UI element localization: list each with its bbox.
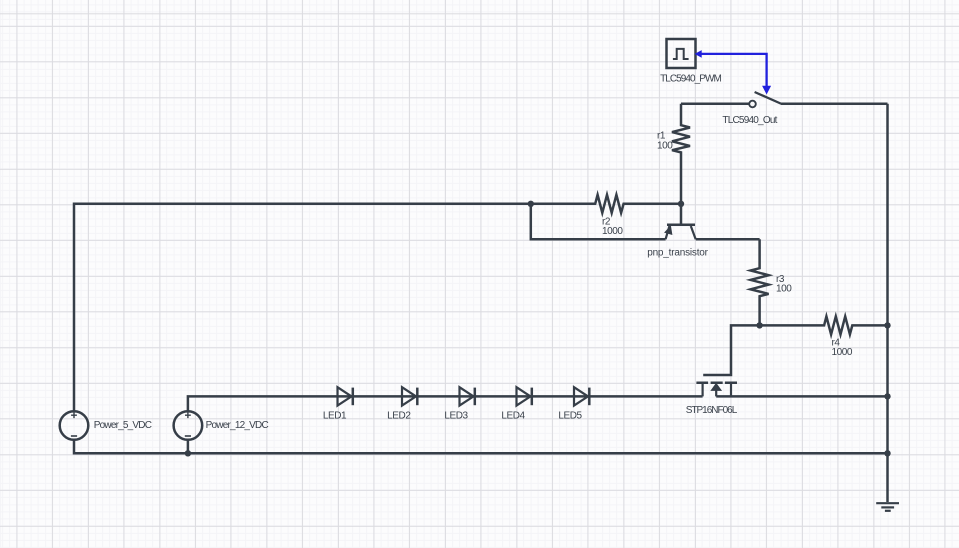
resistor r4 [760,316,888,334]
svg-text:Power_5_VDC: Power_5_VDC [94,420,152,431]
resistor r3 [751,239,769,325]
svg-text:LED1: LED1 [323,411,347,422]
pwm source U1 TLC5940_PWM [667,39,696,68]
voltage source V1 Power_5_VDC [60,411,89,440]
node junction r2-left [528,201,534,207]
resistor r1 [672,104,690,204]
diode LED2 [402,387,417,405]
svg-text:STP16NF06L: STP16NF06L [686,405,738,416]
wire mosfet drain to right bus [716,395,887,398]
svg-text:1000: 1000 [832,347,853,358]
svg-text:LED4: LED4 [501,411,525,422]
diode LED5 [574,387,589,405]
node junction 12VDC/bottom-rail [185,450,191,456]
diode LED3 [460,387,475,405]
svg-text:LED3: LED3 [444,411,468,422]
node junction drain/right-bus [884,393,890,399]
wire switch to right bus [781,103,888,106]
wire left long: 5VDC to r2 [74,204,531,411]
node junction base/r1/r2 [678,201,684,207]
transistor Q1 pnp_transistor [665,204,696,239]
voltage source V2 Power_12_VDC [174,411,203,440]
resistor r2 [531,195,681,213]
wire bottom rail [74,440,888,454]
svg-text:Power_12_VDC: Power_12_VDC [206,420,269,431]
label r3 100 [776,274,792,295]
blue net wire TLC5940_PWM to switch [696,51,771,94]
svg-text:100: 100 [776,284,792,295]
wire led row: 12VDC to mosfet source [188,396,703,411]
svg-text:LED5: LED5 [558,411,582,422]
svg-text:1000: 1000 [602,226,623,237]
svg-text:TLC5940_PWM: TLC5940_PWM [660,74,721,85]
svg-text:TLC5940_Out: TLC5940_Out [722,115,777,126]
node junction r3/r4/gate [756,322,762,328]
svg-text:LED2: LED2 [387,411,411,422]
label r1 100 [657,130,673,151]
node junction r4/right-bus [884,322,890,328]
svg-text:pnp_transistor: pnp_transistor [647,248,708,259]
diode LED1 [338,387,353,405]
wire r1-top to switch [681,103,749,106]
mosfet M1 STP16NF06L [696,325,759,396]
node junction bottom-rail/right-bus [884,450,890,456]
diode LED4 [517,387,532,405]
ground GND [876,503,899,511]
wire collector to r3 [696,238,760,241]
wire right bus [886,104,889,502]
wire 12VDC bottom lead [187,440,190,454]
switch TLC5940_Out [749,92,780,107]
wire emitter to r2-left node [531,204,666,239]
svg-text:100: 100 [657,140,673,151]
label r4 1000 [832,337,853,358]
label r2 1000 [602,216,623,237]
